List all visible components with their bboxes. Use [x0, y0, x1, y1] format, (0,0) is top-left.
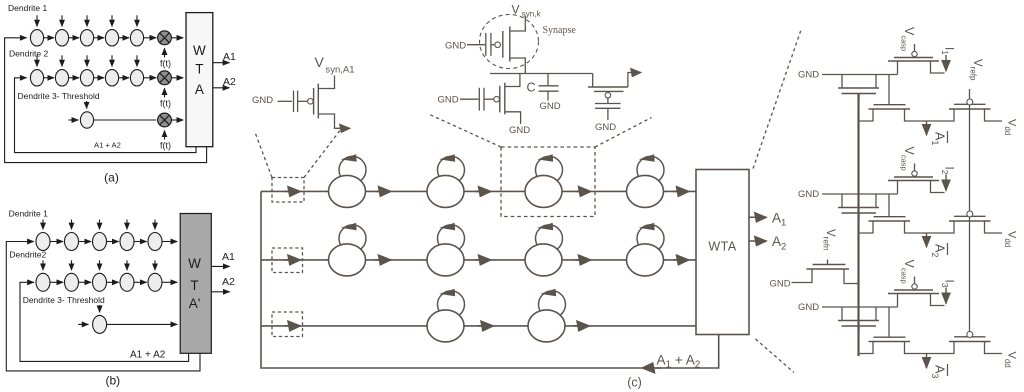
wire output arrow inset2 [628, 73, 641, 88]
dashed callout line inset2 left (c) [429, 114, 502, 147]
threshold circle (b) [93, 315, 107, 333]
overbar Abar3 [947, 364, 949, 376]
svg-text:T: T [190, 278, 198, 293]
svg-text:Vcasp: Vcasp [900, 147, 916, 171]
WTA-prime block (b) [180, 214, 211, 354]
wire dendrite 2 chain (a) [44, 77, 184, 79]
pmos output follower inset2 [588, 87, 628, 98]
wire gate tap cell 2 [888, 194, 890, 217]
wire GND to cap leak [460, 98, 479, 100]
dashed callout line WTA to right circuit bottom [756, 339, 795, 373]
dashed synapse box row 3 (c) [272, 312, 303, 337]
nmos output driver M3b [869, 337, 911, 341]
wire right terminal cell 3 [931, 294, 945, 306]
wire dendrite 1 chain (a) [44, 37, 184, 39]
svg-text:GND: GND [595, 122, 616, 133]
wire threshold circle to multiplier (a) [93, 119, 156, 121]
svg-text:Vcasp: Vcasp [900, 27, 916, 51]
wire A1+A2 feedback arrow (c) [642, 367, 662, 369]
wire driver source to dark rail cell 3 [859, 342, 874, 354]
mos capacitor C3 [838, 321, 879, 327]
svg-text:GND: GND [252, 95, 273, 106]
output arrow Abar2 [926, 233, 928, 247]
pmos Vcasp M2a [888, 164, 939, 181]
svg-text:W: W [188, 256, 201, 271]
synapse circles dendrite 2 (b) [36, 273, 162, 291]
wire right terminal cell 2 [931, 181, 945, 193]
svg-text:(c): (c) [627, 375, 642, 389]
output arrow Abar1 [926, 121, 928, 135]
wire output node cell 3 [905, 342, 955, 354]
svg-text:f(t): f(t) [160, 98, 171, 108]
svg-text:T: T [195, 62, 203, 77]
wire GND to capacitor synapse [467, 44, 485, 46]
svg-text:GND: GND [445, 40, 466, 51]
nmos output driver M2b [869, 217, 911, 221]
nmos output driver M1b [869, 105, 911, 109]
svg-text:W: W [193, 43, 206, 58]
neuron integrator N9 at (445.5,325) (c) [427, 289, 465, 342]
current arrow I3 [945, 288, 947, 304]
wire to Vdd cell 1 [985, 109, 1003, 121]
svg-text:A2: A2 [222, 276, 235, 288]
wire driver source to dark rail cell 2 [859, 221, 874, 233]
svg-text:Dendrite 1: Dendrite 1 [9, 208, 48, 218]
wire multiplier 3 to WTA (a) [171, 119, 183, 121]
wire output node cell 2 [905, 221, 955, 233]
multiplier X1 (a) [158, 31, 172, 45]
wire output A1 (a) [213, 62, 230, 64]
wire bubble to capacitor output [607, 98, 609, 104]
wire leak drain to bus [505, 74, 520, 87]
capacitor C [539, 85, 559, 87]
wire input arrow into threshold circle (a) [69, 119, 79, 121]
svg-text:V: V [315, 54, 325, 70]
wire Vrefn dark rail [857, 94, 859, 356]
svg-text:Vdd: Vdd [1003, 119, 1017, 135]
synapse circles dendrite 1 (b) [36, 233, 162, 251]
threshold circle (a) [80, 112, 93, 128]
dashed ellipse synapse [480, 15, 539, 69]
svg-text:I2: I2 [940, 167, 954, 175]
wire bias drain to dark rail [844, 269, 859, 284]
svg-text:A1: A1 [930, 132, 946, 145]
pmos Vcasp M1a [888, 44, 939, 61]
neuron integrator N6 at (445.5,259) (c) [427, 223, 465, 276]
wire f(t) arrow into multiplier X1 (a) [164, 48, 166, 57]
output arrow Abar3 [926, 354, 928, 369]
svg-text:GND: GND [770, 279, 791, 290]
wire input arrow into threshold circle (b) [78, 323, 88, 325]
wire f(t) arrow into multiplier X2 (a) [164, 88, 166, 97]
neuron integrator N10 at (546.5,325) (c) [528, 289, 566, 342]
wire GND bus cell 1 [822, 74, 898, 76]
wire bus drop to output pmos [592, 74, 594, 88]
neuron integrator N1 at (347,191) (c) [329, 154, 367, 207]
dashed synapse box row 2 (c) [272, 248, 303, 273]
svg-text:Synapse: Synapse [543, 25, 577, 36]
wire row 3 (c) [261, 325, 696, 327]
svg-text:A2: A2 [930, 244, 946, 257]
svg-text:Vrefn: Vrefn [822, 229, 836, 250]
wire leak source to GND [505, 112, 521, 124]
junction arrows on row at y=191.4 (c) [285, 190, 690, 192]
svg-text:A3: A3 [930, 365, 946, 378]
svg-text:Dendrite 1: Dendrite 1 [8, 3, 47, 13]
svg-text:(a): (a) [104, 171, 119, 185]
svg-text:Vrefp: Vrefp [969, 59, 983, 81]
svg-text:WTA: WTA [708, 240, 737, 254]
neuron integrator N7 at (543.5,259) (c) [525, 223, 563, 276]
synapse circles dendrite 1 (a) [30, 30, 143, 46]
neuron integrator N3 at (543.5,191) (c) [525, 154, 563, 207]
junction arrows on row at y=325.9 (c) [285, 325, 590, 327]
wire to Vdd cell 3 [985, 342, 1003, 354]
wire left terminal riser cell 1 [897, 61, 899, 75]
current arrow I2 [945, 175, 947, 191]
svg-text:V: V [512, 3, 520, 17]
svg-text:A1 + A2: A1 + A2 [94, 140, 121, 149]
svg-text:A1: A1 [222, 251, 235, 263]
svg-text:Vdd: Vdd [1003, 231, 1017, 247]
wire synapse source to bus [510, 58, 526, 74]
junction arrows on row at y=259.9 (c) [285, 259, 690, 261]
wire output A1 (b) [211, 265, 229, 267]
wire output A1 (c) [749, 216, 767, 218]
wire bus to capacitor C [547, 74, 549, 86]
svg-text:A2: A2 [223, 76, 236, 88]
input arrows into dendrite 1 circles (b) [43, 220, 155, 230]
overbar Abar2 [947, 243, 949, 255]
input arrows into dendrite 2 circles (b) [43, 260, 155, 270]
dashed callout line inset2 right (c) [595, 118, 652, 148]
svg-text:GND: GND [798, 70, 819, 81]
capacitor output gate cap [595, 103, 621, 105]
dashed zoom box around row1 neuron 3 (c) [501, 147, 595, 217]
WTA block (a) [186, 13, 213, 147]
dashed callout line WTA to right circuit top [753, 30, 801, 169]
pmos Vrefp load M3c [949, 332, 991, 342]
svg-text:(b): (b) [105, 373, 120, 387]
pmos synapse [495, 27, 510, 62]
capacitor leak gate cap [478, 88, 480, 111]
wire cap to dark rail cell 2 [858, 213, 860, 219]
svg-text:f(t): f(t) [160, 58, 171, 68]
wire dendrite 2 chain (b) [50, 281, 177, 283]
wire Vrefp rail [969, 89, 971, 334]
svg-text:f(t): f(t) [160, 141, 171, 151]
synapse circles dendrite 2 (a) [30, 70, 143, 86]
input arrows into dendrite 2 synapse circles (a) [37, 55, 137, 66]
svg-text:A1 + A2: A1 + A2 [130, 350, 166, 361]
pmos Q_syn,A1 inset1 [308, 84, 319, 119]
current arrow I1 [945, 55, 947, 71]
neuron integrator N2 at (445.5,191) (c) [427, 154, 465, 207]
input arrows into dendrite 1 synapse circles (a) [37, 15, 137, 26]
wire row 1 (c) [261, 190, 696, 192]
svg-text:C: C [527, 81, 536, 95]
svg-text:A': A' [189, 296, 201, 311]
wire driver source to dark rail cell 1 [859, 109, 874, 121]
wire cap to dark rail cell 1 [858, 94, 860, 100]
svg-text:GND: GND [438, 95, 459, 106]
wire threshold circle to WTA (b) [107, 323, 178, 325]
multiplier X2 (a) [158, 71, 172, 85]
wire source output arrow inset1 [318, 114, 350, 128]
wire to Vdd cell 2 [985, 221, 1003, 233]
wire cap right riser cell 2 [875, 194, 877, 208]
wire GND bus cell 3 [822, 306, 898, 308]
wire gate tap cell 1 [888, 75, 890, 105]
wire capacitor to GND output [607, 108, 609, 120]
dashed callout line inset1 right (c) [304, 131, 340, 178]
wire feedback inner loop A1+A2 to Dendrite 2 [15, 78, 197, 153]
wire output A2 (a) [213, 87, 230, 89]
svg-text:A1: A1 [223, 51, 236, 63]
wire drain to Vsyn,A1 inset1 [318, 76, 334, 89]
overbar Abar1 [947, 131, 949, 143]
svg-text:A: A [195, 82, 204, 97]
svg-text:GND: GND [509, 125, 530, 136]
wire feedback outer loop A1+A2 to Dendrite 1 [5, 38, 207, 163]
svg-text:Dendrite 3- Threshold: Dendrite 3- Threshold [18, 91, 100, 101]
mos capacitor C1 [838, 88, 879, 94]
wire cap right riser cell 3 [875, 307, 877, 321]
capacitor gate cap inset1 [293, 91, 295, 113]
wire output node cell 1 [905, 109, 955, 121]
wire bias source to GND [792, 269, 813, 283]
wire cap to dark rail cell 3 [858, 326, 860, 332]
wire feedback rail A1+A2 (c) [261, 191, 719, 368]
wire threshold label arrow down (a) [86, 101, 88, 109]
multiplier X3 (a) [158, 113, 172, 127]
svg-text:A2: A2 [772, 234, 786, 252]
svg-text:GND: GND [540, 101, 561, 112]
dashed synapse box row 1 (c) [272, 178, 304, 203]
wire output A2 (c) [749, 240, 767, 242]
dashed callout line inset1 left (c) [255, 131, 273, 178]
nmos Vrefn bias M0 [807, 265, 850, 270]
wire row 2 (c) [261, 259, 696, 261]
wire cap right riser cell 1 [875, 75, 877, 89]
pmos Vcasp M3a [888, 277, 939, 294]
wire capacitor C to GND [547, 91, 549, 100]
svg-text:syn,A1: syn,A1 [326, 65, 355, 76]
wire synapse drain to V_syn,k [510, 16, 526, 31]
wire GND to capacitor inset1 [278, 100, 293, 102]
wire cap to bubble leak [484, 98, 494, 100]
neuron integrator N8 at (645,259) (c) [627, 223, 665, 276]
svg-text:Dendrite 2: Dendrite 2 [9, 49, 48, 59]
wire GND tap to cap cell 1 [841, 75, 843, 89]
WTA block (c) [696, 170, 749, 335]
wire feedback inner loop A1+A2 to Dendrite 2 (b) [20, 282, 189, 361]
svg-text:GND: GND [798, 302, 819, 313]
svg-text:Dendrite 3- Threshold: Dendrite 3- Threshold [23, 295, 105, 305]
neuron integrator N4 at (645,191) (c) [627, 154, 665, 207]
wire left terminal riser cell 3 [897, 294, 899, 308]
svg-text:I3: I3 [940, 280, 954, 288]
wire Vrefn label to gate [827, 260, 829, 265]
wire GND tap to cap cell 3 [841, 307, 843, 321]
svg-text:A1: A1 [772, 210, 786, 228]
wire left terminal riser cell 2 [897, 181, 899, 195]
svg-text:Vdd: Vdd [1003, 352, 1017, 368]
wire GND tap to cap cell 2 [841, 194, 843, 208]
wire right terminal cell 1 [931, 61, 945, 73]
pmos leak [494, 83, 505, 115]
svg-text:I1: I1 [940, 47, 954, 55]
wire feedback outer loop A1+A2 to Dendrite 1 (b) [6, 242, 200, 371]
wire dendrite 1 chain (b) [50, 241, 177, 243]
mos capacitor C2 [838, 208, 879, 214]
wire bus inset2 [490, 73, 593, 75]
svg-text:Dendrite2: Dendrite2 [9, 250, 46, 260]
pmos Vrefp load M1c [949, 99, 991, 109]
capacitor synapse gate cap [485, 33, 487, 56]
wire f(t) arrow into multiplier X3 (a) [164, 131, 166, 140]
svg-text:GND: GND [798, 189, 819, 200]
wire cap to bubble synapse [491, 44, 495, 46]
wire gate tap cell 3 [888, 307, 890, 337]
pmos Vrefp load M2c [949, 211, 991, 221]
neuron integrator N5 at (347,259) (c) [329, 223, 367, 276]
wire output A2 (b) [211, 291, 229, 293]
wire capacitor to gate bubble inset1 [298, 100, 308, 102]
wire threshold label arrow down (b) [99, 305, 101, 312]
wire GND bus cell 2 [822, 193, 898, 195]
svg-text:Vcasp: Vcasp [900, 260, 916, 284]
